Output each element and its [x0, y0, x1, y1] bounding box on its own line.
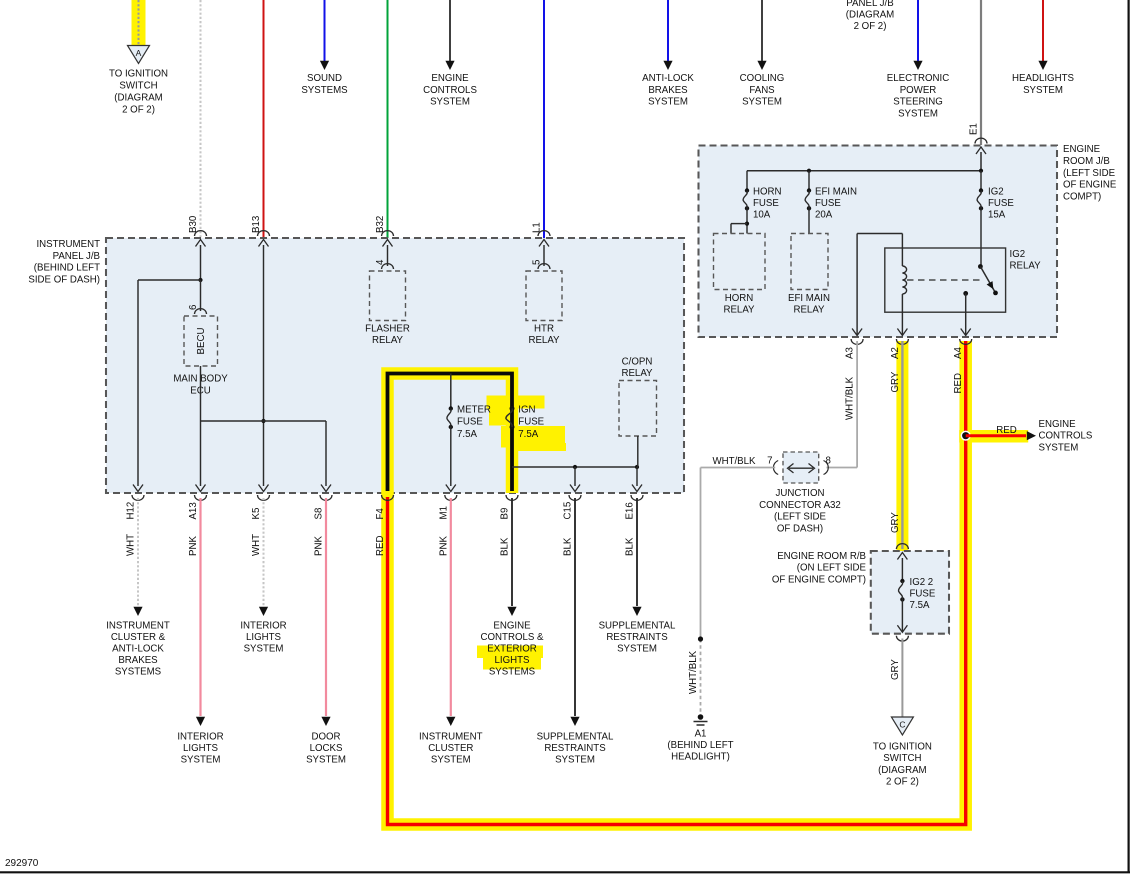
horn fuse 10A — [745, 188, 749, 192]
svg-text:C: C — [899, 720, 905, 730]
svg-text:SYSTEM: SYSTEM — [430, 97, 470, 108]
svg-text:H12: H12 — [126, 502, 137, 520]
pin K5 at panel bottom edge — [259, 485, 269, 492]
svg-text:BECU: BECU — [196, 328, 207, 355]
svg-text:GRY: GRY — [890, 512, 901, 533]
C/OPN relay box — [619, 381, 657, 437]
svg-text:K5: K5 — [251, 508, 262, 520]
svg-text:OF ENGINE: OF ENGINE — [1063, 180, 1117, 191]
svg-text:RED: RED — [953, 373, 964, 393]
wire to anti-lock brakes system (BLU) — [667, 0, 669, 61]
HTR relay box — [526, 271, 562, 321]
svg-text:C/OPN: C/OPN — [622, 357, 653, 368]
svg-text:METER: METER — [457, 404, 491, 415]
svg-text:(LEFT SIDE: (LEFT SIDE — [774, 512, 827, 523]
svg-text:RELAY: RELAY — [723, 305, 755, 316]
svg-text:TO IGNITION: TO IGNITION — [109, 69, 168, 80]
svg-text:PNK: PNK — [188, 536, 199, 556]
svg-text:OF ENGINE COMPT): OF ENGINE COMPT) — [772, 574, 866, 585]
pin A13 at panel bottom edge — [196, 485, 206, 492]
svg-text:EFI MAIN: EFI MAIN — [788, 293, 830, 304]
svg-text:A13: A13 — [188, 502, 199, 519]
arrow to headlights system — [1038, 61, 1047, 70]
highlight on ignition feed wire — [132, 0, 146, 46]
svg-text:ENGINE: ENGINE — [493, 621, 531, 632]
wire branch junction to left and right — [201, 420, 327, 422]
svg-text:SYSTEM: SYSTEM — [1039, 442, 1079, 453]
wire to ignition switch connector C (GRY) — [901, 639, 903, 717]
arrow interior lights system short — [259, 607, 268, 616]
flasher relay box — [370, 271, 406, 321]
svg-text:BLK: BLK — [500, 537, 511, 556]
svg-text:LIGHTS: LIGHTS — [246, 632, 282, 643]
wire to engine controls system (BLK) — [449, 0, 451, 61]
svg-text:5: 5 — [532, 260, 543, 265]
svg-text:PNK: PNK — [438, 536, 449, 556]
arrow to engine controls system — [445, 61, 454, 70]
svg-text:FUSE: FUSE — [753, 198, 779, 209]
svg-text:SYSTEMS: SYSTEMS — [301, 85, 348, 96]
wire from pin 7 left and down to ground A1 (WHT/BLK) — [701, 467, 776, 469]
svg-text:RESTRAINTS: RESTRAINTS — [606, 632, 668, 643]
wire IG2 relay coil bottom to A2 — [901, 294, 903, 335]
pin 6 of main body ECU — [195, 309, 207, 314]
svg-text:(DIAGRAM: (DIAGRAM — [846, 9, 894, 20]
svg-text:LIGHTS: LIGHTS — [495, 655, 531, 666]
pin A2 at engine room J/B bottom edge — [897, 329, 907, 336]
arrow to anti-lock brakes system — [663, 61, 672, 70]
wire E1 from top (GRY) — [980, 0, 982, 145]
node C15 tap junction — [573, 465, 577, 469]
pin F4 at panel bottom edge — [382, 495, 394, 500]
svg-text:(BEHIND LEFT: (BEHIND LEFT — [34, 263, 100, 274]
svg-text:SUPPLEMENTAL: SUPPLEMENTAL — [537, 732, 614, 743]
svg-text:SIDE OF DASH): SIDE OF DASH) — [28, 274, 100, 285]
pin B9 at panel bottom edge — [506, 495, 518, 500]
svg-text:SOUND: SOUND — [307, 73, 342, 84]
node splice on WHT/BLK wire — [698, 636, 703, 641]
svg-text:FUSE: FUSE — [457, 417, 483, 428]
wire K5 (WHT) — [263, 498, 265, 606]
svg-text:SYSTEM: SYSTEM — [431, 755, 471, 766]
svg-text:6: 6 — [188, 305, 199, 310]
svg-text:STEERING: STEERING — [893, 97, 943, 108]
node bus at EFI main fuse — [807, 169, 811, 173]
wire branch down to S8 — [325, 421, 327, 486]
svg-text:SYSTEM: SYSTEM — [617, 644, 657, 655]
svg-text:SYSTEM: SYSTEM — [742, 97, 782, 108]
arrow instrument cluster & anti-lock brakes — [133, 607, 142, 616]
pin E16 at panel bottom edge — [632, 485, 642, 492]
wire bus to EFI main fuse — [808, 171, 810, 191]
svg-text:SYSTEM: SYSTEM — [1023, 85, 1063, 96]
svg-text:RESTRAINTS: RESTRAINTS — [544, 743, 606, 754]
wire to ignition switch connector A (GRY) — [138, 0, 140, 46]
svg-text:ANTI-LOCK: ANTI-LOCK — [642, 73, 694, 84]
svg-text:SYSTEM: SYSTEM — [555, 755, 595, 766]
wire IG2 relay output to A4 — [965, 293, 967, 335]
IG2 fuse 15A — [979, 188, 983, 192]
svg-text:ENGINE: ENGINE — [1039, 419, 1077, 430]
wire red branch to engine controls system (RED) — [966, 434, 1026, 437]
wire bus to horn fuse — [746, 171, 748, 191]
yellow highlight on red hot wire path — [388, 341, 966, 825]
svg-text:M1: M1 — [438, 506, 449, 519]
wire A3 (WHT/BLK) down and left to junction connector — [856, 341, 858, 468]
svg-text:CLUSTER &: CLUSTER & — [111, 632, 166, 643]
svg-text:LOCKS: LOCKS — [310, 743, 343, 754]
wire C15 (BLK) — [574, 498, 576, 716]
svg-text:GRY: GRY — [890, 371, 901, 392]
svg-text:INTERIOR: INTERIOR — [177, 732, 223, 743]
svg-text:ROOM J/B: ROOM J/B — [1063, 156, 1110, 167]
svg-text:WHT/BLK: WHT/BLK — [712, 456, 756, 467]
svg-text:7.5A: 7.5A — [910, 600, 930, 611]
svg-text:B13: B13 — [251, 216, 262, 233]
svg-text:BRAKES: BRAKES — [118, 655, 158, 666]
wire inside R/B to IG2 2 fuse — [901, 558, 903, 581]
svg-text:RELAY: RELAY — [793, 305, 825, 316]
svg-text:(DIAGRAM: (DIAGRAM — [114, 93, 162, 104]
node horn relay terminal split — [745, 222, 749, 226]
svg-text:INSTRUMENT: INSTRUMENT — [419, 732, 483, 743]
svg-text:ANTI-LOCK: ANTI-LOCK — [112, 644, 164, 655]
svg-text:2 OF 2): 2 OF 2) — [886, 777, 919, 788]
wire from fuse to R/B bottom edge — [901, 599, 903, 632]
svg-text:B30: B30 — [188, 215, 199, 233]
svg-text:RELAY: RELAY — [372, 335, 404, 346]
wire A13 (PNK) — [199, 498, 201, 716]
svg-text:WHT/BLK: WHT/BLK — [845, 376, 856, 420]
instrument panel J/B box — [106, 238, 684, 493]
svg-text:CONTROLS: CONTROLS — [1039, 431, 1093, 442]
right border line — [1127, 0, 1129, 872]
svg-text:IG2 2: IG2 2 — [910, 577, 934, 588]
svg-text:CONTROLS: CONTROLS — [423, 85, 477, 96]
wire branch to H12 — [138, 279, 201, 281]
meter fuse 7.5A — [449, 406, 453, 410]
svg-text:SUPPLEMENTAL: SUPPLEMENTAL — [599, 621, 676, 632]
wire branch to horn relay second terminal — [731, 223, 747, 225]
svg-text:HEADLIGHTS: HEADLIGHTS — [1012, 73, 1074, 84]
wire from B32 to flasher relay — [387, 245, 389, 266]
svg-text:SYSTEM: SYSTEM — [181, 755, 221, 766]
svg-text:INSTRUMENT: INSTRUMENT — [106, 621, 170, 632]
main body ECU box (BECU) — [184, 316, 218, 366]
wire B32 from top (GRN) — [387, 0, 389, 238]
svg-text:SYSTEM: SYSTEM — [648, 97, 688, 108]
wire down to E16 — [636, 467, 638, 486]
svg-text:CLUSTER: CLUSTER — [428, 743, 473, 754]
wire B13 from top (RED) — [263, 0, 265, 238]
wire M1 (PNK) — [450, 498, 452, 716]
pin A4 at engine room J/B bottom edge — [961, 329, 971, 336]
svg-text:A4: A4 — [953, 347, 964, 359]
svg-text:SYSTEM: SYSTEM — [306, 755, 346, 766]
svg-text:RELAY: RELAY — [1010, 261, 1042, 272]
svg-text:FUSE: FUSE — [815, 198, 841, 209]
svg-text:HEADLIGHT): HEADLIGHT) — [671, 752, 730, 763]
wire E16 (BLK) — [636, 498, 638, 606]
wire from BECU down to A13 — [200, 366, 202, 486]
thick highlighted hot feed wire F4 to B9 — [388, 374, 513, 492]
svg-text:7.5A: 7.5A — [518, 429, 538, 440]
svg-text:HORN: HORN — [725, 293, 754, 304]
svg-text:OF DASH): OF DASH) — [777, 523, 823, 534]
svg-text:HTR: HTR — [534, 324, 554, 335]
pin H12 at panel bottom edge — [133, 485, 143, 492]
node B13 split junction — [261, 419, 265, 423]
svg-text:SYSTEM: SYSTEM — [898, 108, 938, 119]
yellow highlight on thick hot-feed wire — [388, 374, 513, 494]
svg-text:SYSTEMS: SYSTEMS — [115, 667, 162, 678]
pin S8 at panel bottom edge — [321, 485, 331, 492]
svg-text:PNK: PNK — [314, 536, 325, 556]
arrow door locks system — [321, 717, 330, 726]
IG2 relay switch arm with arrowhead — [980, 267, 995, 293]
pin B32 at panel top edge — [382, 231, 394, 236]
wire EFI main fuse to EFI main relay — [808, 208, 810, 233]
svg-text:FLASHER: FLASHER — [365, 324, 410, 335]
pin 5 of HTR relay — [538, 264, 550, 269]
wire bus to IG2 fuse — [980, 171, 982, 191]
wire IG2 fuse to relay switch contact — [980, 208, 982, 266]
bus wire inside engine room J/B — [980, 152, 982, 171]
wire IG2 relay coil top to A3 routing — [901, 234, 903, 267]
svg-text:PANEL J/B: PANEL J/B — [846, 0, 893, 9]
svg-text:ENGINE: ENGINE — [431, 73, 469, 84]
EFI main relay box — [791, 234, 828, 290]
IG2 relay coil — [902, 266, 906, 294]
svg-text:SWITCH: SWITCH — [119, 81, 157, 92]
node IG2 relay switch arm end — [993, 291, 998, 296]
node red splice to engine controls system — [961, 431, 971, 441]
arrow engine controls & exterior lights — [507, 607, 516, 616]
junction connector A32 pin 8 socket — [824, 461, 829, 475]
svg-text:IG2: IG2 — [1010, 249, 1026, 260]
svg-text:COOLING: COOLING — [740, 73, 785, 84]
svg-text:IG2: IG2 — [988, 187, 1004, 198]
node bus at E1 — [979, 169, 983, 173]
pin C15 at panel bottom edge — [570, 485, 580, 492]
node B30 split junction — [198, 278, 202, 282]
wire from junction to main body ECU pin 6 — [200, 280, 202, 311]
connector C to ignition switch — [891, 717, 913, 735]
junction connector A32 internal double arrow — [789, 467, 813, 469]
svg-text:F4: F4 — [375, 508, 386, 520]
arrow to sound systems — [320, 61, 329, 70]
svg-text:RED: RED — [375, 536, 386, 556]
svg-text:CONTROLS &: CONTROLS & — [481, 632, 545, 643]
node IG2 relay switch common contact — [978, 264, 983, 269]
arrow supplemental restraints system long — [570, 717, 579, 726]
svg-text:EFI MAIN: EFI MAIN — [815, 187, 857, 198]
engine room R/B box — [871, 551, 949, 634]
wire to meter fuse — [450, 374, 452, 409]
arrow to cooling fans system — [757, 61, 766, 70]
svg-text:FUSE: FUSE — [518, 417, 544, 428]
svg-text:A1: A1 — [695, 729, 707, 740]
IG2 2 fuse 7.5A — [900, 579, 904, 583]
junction connector A32 pin 7 socket — [773, 461, 778, 475]
pin E1 at engine room J/B top edge — [975, 138, 987, 143]
svg-text:8: 8 — [826, 456, 831, 467]
svg-text:A: A — [136, 48, 142, 58]
svg-text:TO IGNITION: TO IGNITION — [873, 742, 932, 753]
connector A to ignition switch — [128, 46, 150, 64]
svg-text:A3: A3 — [845, 347, 856, 359]
pin A3 at engine room J/B bottom edge — [852, 329, 862, 336]
svg-text:DOOR: DOOR — [311, 732, 340, 743]
svg-text:IGN: IGN — [518, 404, 535, 415]
arrow supplemental restraints system short — [632, 607, 641, 616]
svg-text:7.5A: 7.5A — [457, 429, 477, 440]
pin B13 at panel top edge — [258, 231, 270, 236]
pin 4 of flasher relay — [382, 264, 394, 269]
IGN fuse 7.5A on thick wire — [510, 406, 515, 411]
arrow instrument cluster system — [446, 717, 455, 726]
svg-text:FANS: FANS — [749, 85, 775, 96]
wire to electronic power steering system (BLU) — [917, 0, 919, 61]
svg-text:RED: RED — [996, 425, 1016, 436]
wire down to C15 — [574, 467, 576, 486]
yellow highlight behind exterior lights words — [477, 646, 543, 659]
svg-text:BRAKES: BRAKES — [648, 85, 688, 96]
svg-text:A2: A2 — [890, 347, 901, 359]
wire A2 (GRY) down to engine room R/B — [901, 341, 903, 549]
wire S8 (PNK) — [325, 498, 327, 716]
svg-text:15A: 15A — [988, 210, 1006, 221]
svg-text:E1: E1 — [969, 123, 980, 135]
ground A1 — [698, 714, 704, 720]
svg-text:JUNCTION: JUNCTION — [776, 488, 825, 499]
pin M1 at panel bottom edge — [446, 485, 456, 492]
arrow interior lights system — [196, 717, 205, 726]
wire inside panel from B30 — [200, 245, 202, 280]
svg-text:S8: S8 — [314, 508, 325, 520]
dashed actuation link in IG2 relay — [907, 279, 984, 281]
svg-text:20A: 20A — [815, 210, 833, 221]
svg-text:WHT: WHT — [126, 534, 137, 556]
svg-text:7: 7 — [767, 456, 772, 467]
IG2 relay box — [885, 248, 1006, 312]
bottom border line — [0, 871, 1130, 873]
svg-text:RELAY: RELAY — [621, 368, 653, 379]
svg-text:(ON LEFT SIDE: (ON LEFT SIDE — [797, 563, 867, 574]
svg-text:10A: 10A — [753, 210, 771, 221]
svg-text:ENGINE: ENGINE — [1063, 144, 1101, 155]
svg-text:INSTRUMENT: INSTRUMENT — [36, 239, 100, 250]
svg-text:POWER: POWER — [900, 85, 937, 96]
wire to sound systems (BLU) — [324, 0, 326, 61]
svg-text:SYSTEMS: SYSTEMS — [489, 667, 536, 678]
svg-text:2 OF 2): 2 OF 2) — [122, 105, 155, 116]
wire from C/OPN relay to junction — [637, 436, 639, 467]
svg-text:B32: B32 — [375, 216, 386, 233]
svg-text:WHT: WHT — [251, 534, 262, 556]
svg-text:(LEFT SIDE: (LEFT SIDE — [1063, 168, 1116, 179]
svg-text:INTERIOR: INTERIOR — [240, 621, 286, 632]
node C/OPN relay junction — [635, 465, 639, 469]
pin at R/B bottom edge — [897, 625, 907, 632]
wire B30 from top (WHT) — [200, 0, 202, 238]
svg-text:(BEHIND LEFT: (BEHIND LEFT — [667, 740, 733, 751]
svg-text:2 OF 2): 2 OF 2) — [854, 21, 887, 32]
wire B9 (BLK) — [511, 498, 513, 606]
engine room J/B box — [699, 146, 1058, 338]
arrow to engine controls system right — [1027, 431, 1036, 440]
svg-text:B9: B9 — [500, 508, 511, 520]
node IG2 relay output contact — [963, 291, 968, 296]
svg-text:C15: C15 — [563, 502, 574, 520]
svg-text:EXTERIOR: EXTERIOR — [487, 644, 537, 655]
svg-text:ENGINE ROOM R/B: ENGINE ROOM R/B — [777, 551, 866, 562]
junction connector A32 box — [783, 452, 819, 483]
svg-text:PANEL J/B: PANEL J/B — [53, 251, 100, 262]
wire horn fuse to horn relay — [746, 208, 748, 233]
svg-text:HORN: HORN — [753, 187, 782, 198]
wire to cooling fans system (BLK) — [761, 0, 763, 61]
horn relay box — [714, 234, 766, 290]
yellow highlight on A2 GRY wire — [896, 341, 908, 551]
wire from IGN fuse output to C/OPN relay branch — [512, 466, 637, 468]
svg-text:4: 4 — [375, 259, 386, 265]
pin at R/B top edge — [896, 544, 908, 549]
EFI main fuse 20A — [807, 188, 811, 192]
svg-text:FUSE: FUSE — [988, 198, 1014, 209]
svg-text:ELECTRONIC: ELECTRONIC — [887, 73, 949, 84]
svg-text:LIGHTS: LIGHTS — [183, 743, 219, 754]
svg-text:292970: 292970 — [5, 858, 39, 869]
wire L1 from top (BLU) — [543, 0, 545, 238]
svg-text:BLK: BLK — [625, 537, 636, 556]
svg-text:SYSTEM: SYSTEM — [244, 644, 284, 655]
wire H12 (WHT) — [137, 498, 139, 606]
svg-text:RELAY: RELAY — [528, 335, 560, 346]
wire from L1 to HTR relay — [543, 245, 545, 266]
svg-text:FUSE: FUSE — [910, 589, 936, 600]
wire F4 red hot path down, across and up to A4 (RED) — [388, 341, 966, 825]
svg-text:BLK: BLK — [563, 537, 574, 556]
wire from meter fuse to M1 — [450, 427, 452, 486]
wire to headlights system (RED) — [1042, 0, 1044, 61]
svg-text:CONNECTOR A32: CONNECTOR A32 — [759, 500, 841, 511]
svg-text:E16: E16 — [625, 502, 636, 519]
pin B30 at panel top edge — [195, 231, 207, 236]
pin L1 at panel top edge — [538, 231, 550, 236]
arrow to electronic power steering system — [913, 61, 922, 70]
svg-text:COMPT): COMPT) — [1063, 192, 1101, 203]
svg-text:GRY: GRY — [890, 659, 901, 680]
svg-text:WHT/BLK: WHT/BLK — [688, 650, 699, 694]
yellow highlight blobs behind IGN fuse labels — [487, 396, 545, 409]
svg-text:SWITCH: SWITCH — [883, 753, 921, 764]
wire inside panel from B13 down to K5 — [263, 245, 265, 486]
svg-text:(DIAGRAM: (DIAGRAM — [878, 765, 926, 776]
